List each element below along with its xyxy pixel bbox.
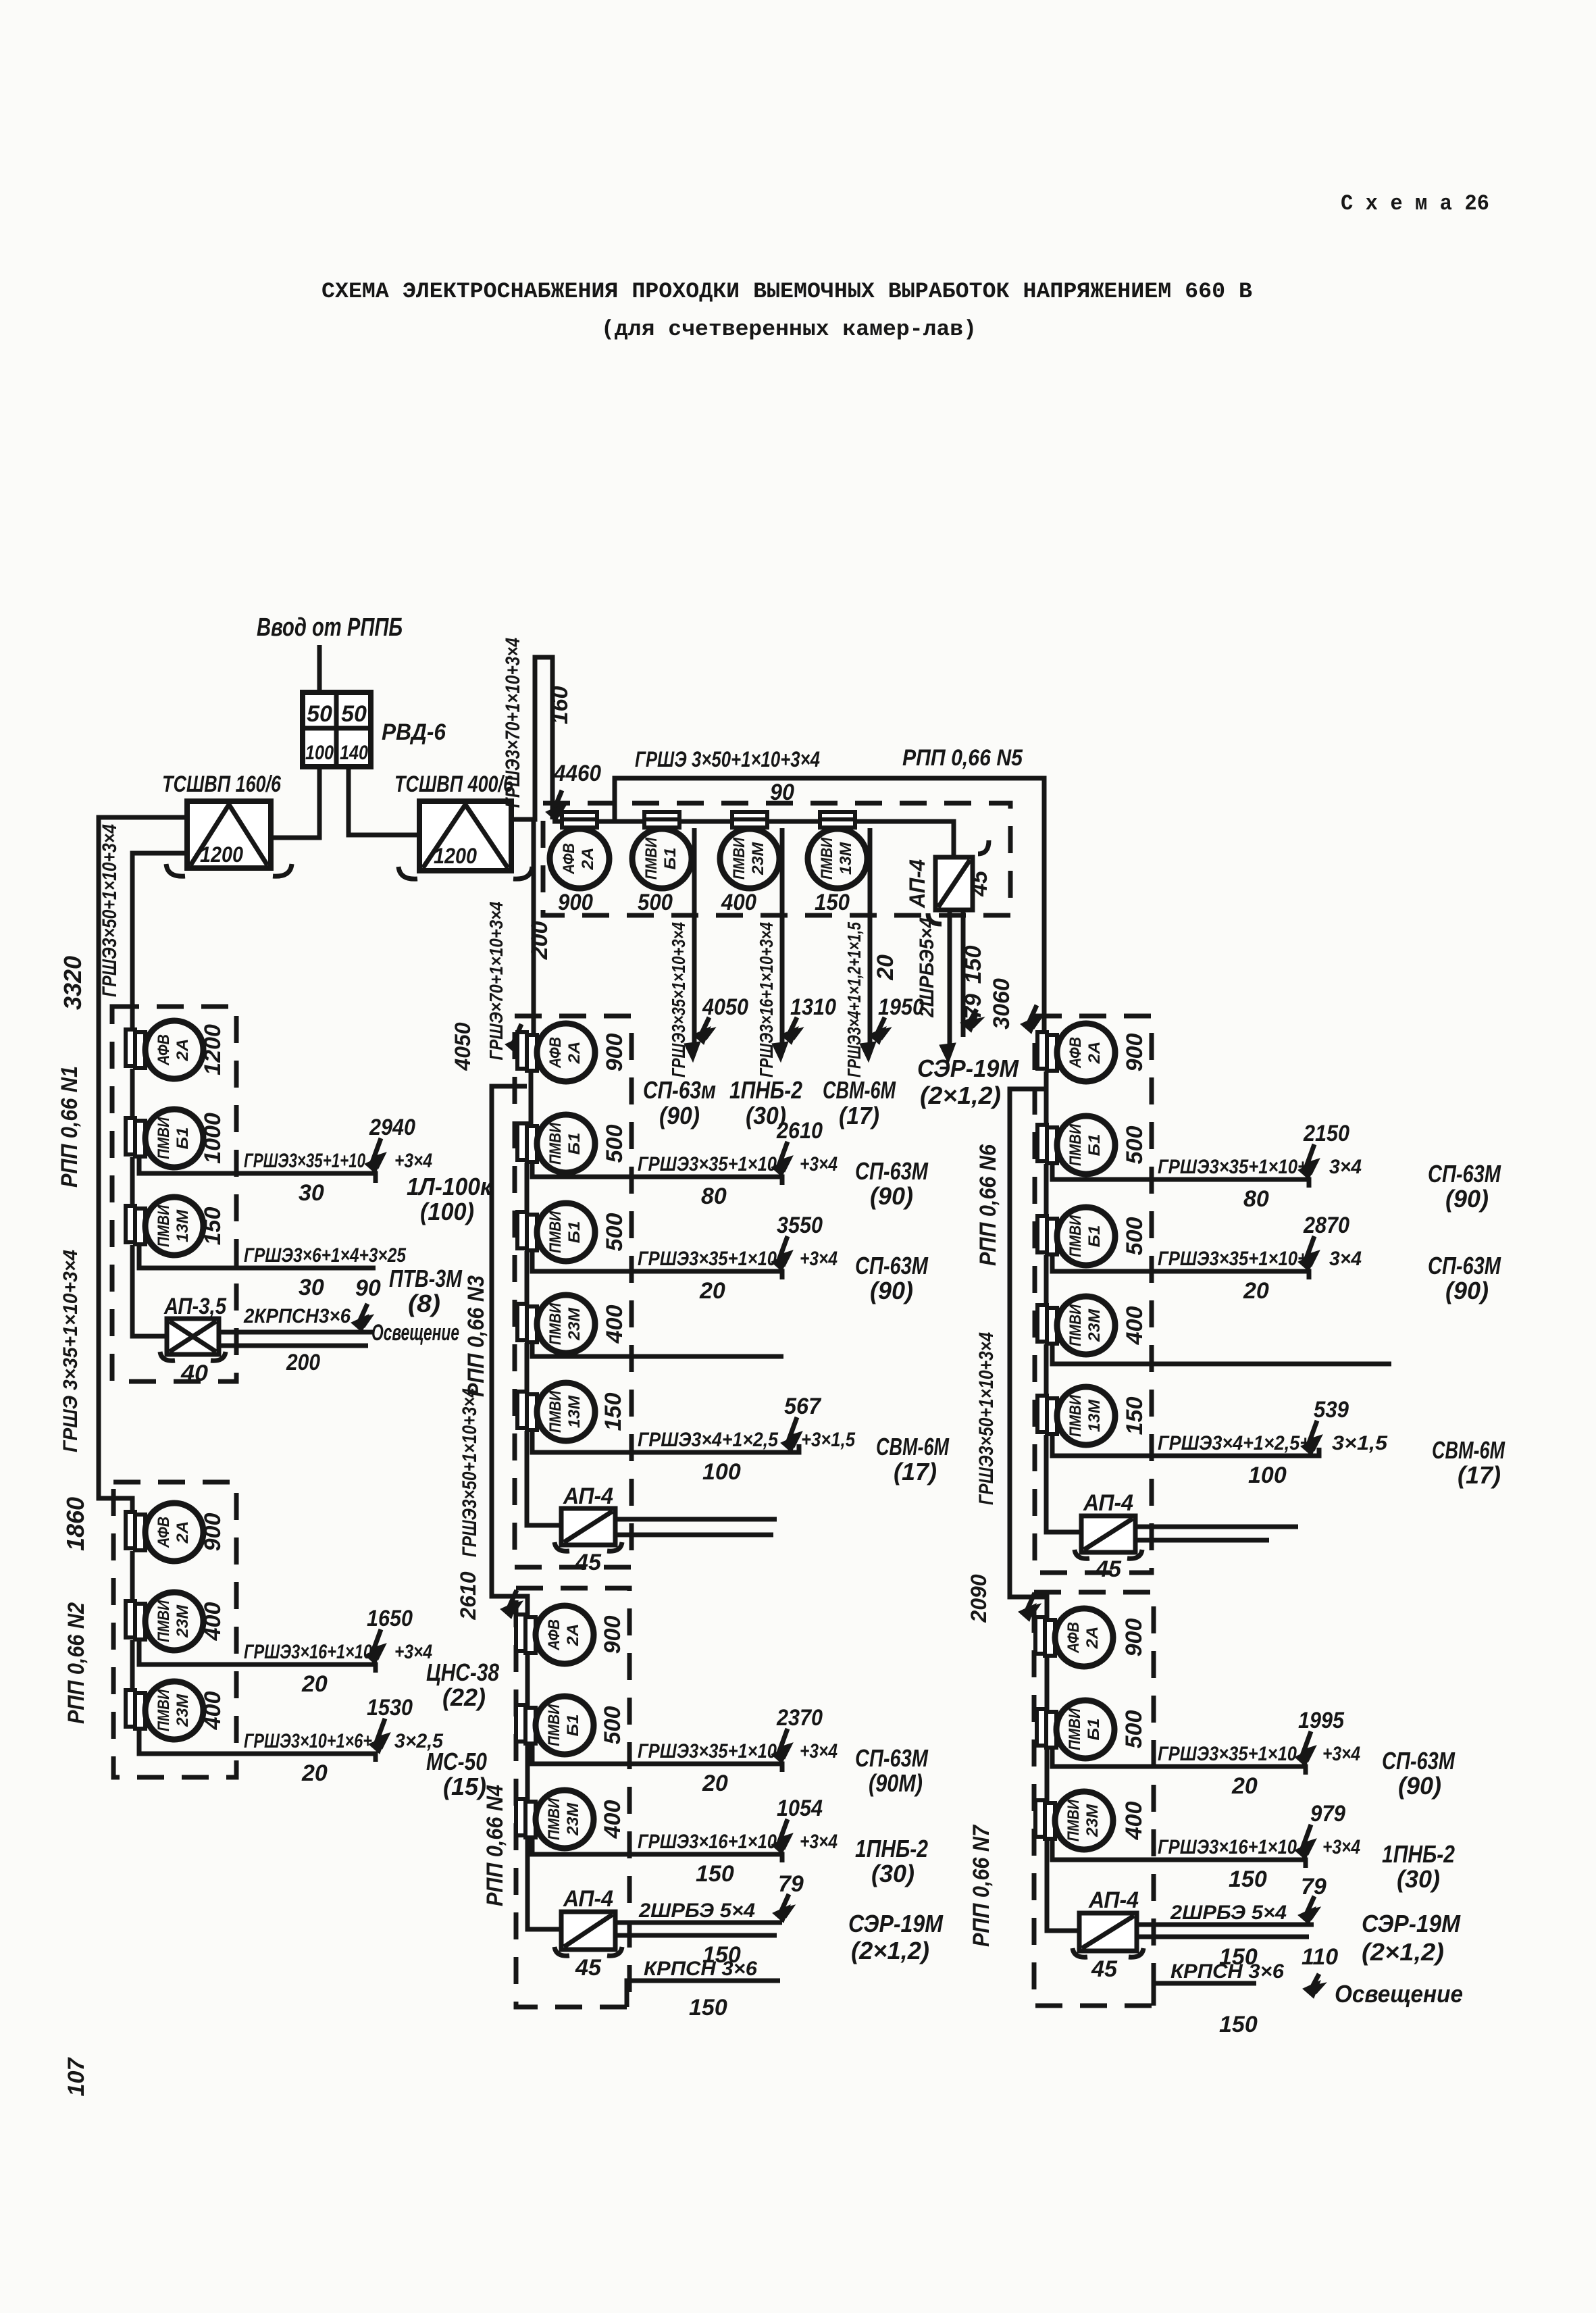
svg-text:1860: 1860 — [61, 1497, 89, 1551]
svg-text:500: 500 — [602, 1125, 627, 1163]
svg-text:45: 45 — [575, 1955, 602, 1981]
lightning fault marker — [877, 1017, 886, 1039]
svg-text:(15): (15) — [443, 1773, 486, 1800]
lightning fault marker at N4 input — [509, 1590, 518, 1613]
svg-text:2ШРБЭ5×4: 2ШРБЭ5×4 — [916, 917, 938, 1018]
svg-text:100: 100 — [702, 1459, 741, 1485]
svg-text:ПМВИ: ПМВИ — [545, 1798, 563, 1840]
apparatus АФВ 2А (N2) — body — [145, 1503, 203, 1561]
svg-text:23М: 23М — [1085, 1308, 1104, 1342]
svg-text:30: 30 — [299, 1275, 324, 1300]
lightning fault marker — [1304, 1731, 1312, 1761]
svg-text:АФВ: АФВ — [545, 1619, 563, 1651]
svg-text:РПП 0,66 N7: РПП 0,66 N7 — [969, 1824, 994, 1947]
svg-text:ГРШЭ3×35+1×10+: ГРШЭ3×35+1×10+ — [1158, 1248, 1308, 1270]
svg-text:+3×4: +3×4 — [800, 1740, 838, 1762]
wire feeder row 1 (N2) — [139, 1640, 376, 1673]
wire bus inside N4 — [525, 1654, 530, 1706]
svg-text:СП-63М: СП-63М — [855, 1744, 929, 1772]
starter АП-3,5 (N1) — [167, 1319, 219, 1354]
svg-text:ГРШЭ×70+1×10+3×4: ГРШЭ×70+1×10+3×4 — [486, 901, 507, 1060]
svg-text:+3×1,5: +3×1,5 — [801, 1429, 856, 1451]
svg-text:500: 500 — [1122, 1126, 1148, 1165]
svg-text:СВМ-6М: СВМ-6М — [1432, 1436, 1505, 1464]
switchgear box РПП 0,66 N2 — [113, 1482, 236, 1777]
svg-text:ПМВИ: ПМВИ — [545, 1704, 563, 1746]
wire ТСШВП 160/6 output to N2 (outer bus) — [99, 817, 187, 1513]
svg-text:Освещение: Освещение — [1335, 1980, 1463, 2008]
svg-text:13М: 13М — [565, 1395, 584, 1428]
wire bus to РПП 0,66 N5 — [552, 778, 1044, 1034]
svg-text:РВД-6: РВД-6 — [382, 719, 446, 745]
svg-text:23М: 23М — [749, 842, 767, 875]
svg-text:90: 90 — [355, 1275, 381, 1301]
svg-text:КРПСН 3×6: КРПСН 3×6 — [1170, 1960, 1284, 1983]
svg-text:+3×4: +3×4 — [800, 1831, 838, 1853]
lightning fault marker — [1307, 1144, 1316, 1174]
svg-text:ТСШВП 400/6: ТСШВП 400/6 — [394, 771, 514, 797]
wire bus inside РПП N5 — [557, 821, 954, 859]
svg-text:150: 150 — [1229, 1866, 1267, 1892]
starter АП-4 (N5) — [935, 857, 973, 910]
svg-text:150: 150 — [600, 1393, 626, 1431]
apparatus АФВ 2А (N2) — connector — [126, 1512, 135, 1548]
svg-text:АФВ: АФВ — [155, 1034, 173, 1066]
svg-text:ГРШЭ3×4+1×2,5: ГРШЭ3×4+1×2,5 — [638, 1429, 779, 1451]
lightning fault marker (N7 lighting) — [1312, 1974, 1320, 1993]
svg-text:С х е м а 26: С х е м а 26 — [1341, 191, 1489, 216]
svg-text:2370: 2370 — [776, 1705, 823, 1731]
svg-text:ГРШЭ3×50+1×10+3×4: ГРШЭ3×50+1×10+3×4 — [99, 824, 121, 997]
svg-text:500: 500 — [638, 890, 673, 915]
svg-text:ГРШЭ3×35+1+10: ГРШЭ3×35+1+10 — [244, 1150, 365, 1172]
starter АП-4 (N4) — [561, 1912, 615, 1950]
svg-text:ПМВИ: ПМВИ — [1066, 1708, 1084, 1750]
svg-text:ЦНС-38: ЦНС-38 — [426, 1658, 499, 1686]
apparatus АФВ 2А (N5) — connector — [562, 812, 597, 819]
wire trunk РПП N3 to РПП N4 — [492, 1086, 527, 1616]
wire feeder row 1 (N7) — [1052, 1748, 1306, 1775]
svg-text:900: 900 — [1121, 1619, 1147, 1657]
apparatus ПМВИ 23М (N4) — connector — [516, 1799, 525, 1835]
svg-text:КРПСН 3×6: КРПСН 3×6 — [644, 1958, 757, 1980]
apparatus АФВ 2А (N7) — body — [1055, 1608, 1113, 1667]
wire feeder row 2 (N6) — [1052, 1255, 1309, 1279]
lightning fault marker — [780, 1819, 789, 1849]
wire feeder row 3 (N3) — [532, 1343, 783, 1356]
svg-text:Освещение: Освещение — [371, 1320, 459, 1346]
wire КРПСН row (N7) — [1154, 1983, 1256, 2006]
svg-text:МС-50: МС-50 — [426, 1748, 487, 1775]
svg-text:ПМВИ: ПМВИ — [1066, 1304, 1085, 1346]
svg-text:(2×1,2): (2×1,2) — [851, 1937, 929, 1964]
wire riser ТСШВП 400/6 output — [511, 657, 552, 819]
apparatus ПМВИ Б1 (N4) — body — [536, 1696, 594, 1754]
svg-text:ПМВИ: ПМВИ — [546, 1302, 565, 1345]
svg-text:1000: 1000 — [200, 1113, 226, 1164]
svg-text:200: 200 — [286, 1350, 320, 1375]
svg-text:20: 20 — [1243, 1278, 1269, 1304]
wire feeder row 4 (N3) — [532, 1431, 799, 1452]
wire АП-3,5 output row — [219, 1330, 373, 1335]
svg-text:13М: 13М — [174, 1209, 192, 1242]
svg-text:4460: 4460 — [553, 761, 601, 786]
svg-text:ГРШЭ3×4+1×1,2+1×1,5: ГРШЭ3×4+1×1,2+1×1,5 — [844, 922, 865, 1077]
apparatus ПМВИ 13М (N5) — connector — [820, 812, 855, 819]
svg-text:СП-63м: СП-63м — [643, 1076, 716, 1104]
lightning fault marker — [374, 1629, 382, 1659]
svg-text:(2×1,2): (2×1,2) — [1362, 1938, 1444, 1966]
switchgear box РПП 0,66 N6 — [1035, 1016, 1152, 1573]
transformer ТСШВП 160/6 — [187, 801, 271, 868]
wire РВД-6 right output to ТСШВП 400/6 — [349, 767, 419, 835]
apparatus ПМВИ Б1 (N1) — body — [145, 1109, 203, 1167]
apparatus ПМВИ Б1 (N5) — connector — [644, 812, 679, 819]
svg-text:20: 20 — [702, 1771, 728, 1796]
lightning fault marker — [1310, 1421, 1318, 1450]
svg-text:1ПНБ-2: 1ПНБ-2 — [729, 1076, 802, 1104]
svg-text:ТСШВП 160/6: ТСШВП 160/6 — [162, 771, 282, 797]
svg-text:20: 20 — [301, 1760, 328, 1786]
svg-text:45: 45 — [575, 1550, 602, 1575]
svg-text:2А: 2А — [1083, 1627, 1102, 1650]
svg-text:20: 20 — [301, 1671, 328, 1697]
svg-text:400: 400 — [200, 1692, 226, 1731]
svg-text:79: 79 — [778, 1871, 804, 1897]
wire АП-4 N3 outputs — [615, 1517, 777, 1522]
svg-text:(2×1,2): (2×1,2) — [920, 1082, 1001, 1109]
svg-text:1995: 1995 — [1298, 1708, 1345, 1733]
switchgear box РПП 0,66 N4 — [516, 1588, 629, 2007]
svg-text:Б1: Б1 — [1085, 1134, 1104, 1156]
apparatus ПМВИ Б1 (N6-1) — connector — [1037, 1125, 1047, 1161]
apparatus ПМВИ 13М (N1) — body — [145, 1197, 203, 1255]
svg-text:(17): (17) — [1458, 1461, 1501, 1489]
svg-text:ГРШЭ3×16+1×10: ГРШЭ3×16+1×10 — [1158, 1836, 1297, 1858]
apparatus ПМВИ 23М (N7) — connector — [1035, 1800, 1045, 1837]
svg-text:30: 30 — [299, 1180, 324, 1206]
svg-text:400: 400 — [1122, 1306, 1148, 1346]
svg-text:АФВ: АФВ — [546, 1037, 565, 1069]
svg-text:23М: 23М — [174, 1604, 192, 1638]
svg-text:СВМ-6М: СВМ-6М — [876, 1433, 950, 1460]
svg-text:РПП 0,66 N1: РПП 0,66 N1 — [57, 1066, 82, 1188]
svg-text:100: 100 — [1248, 1463, 1287, 1488]
svg-text:(90): (90) — [1445, 1277, 1489, 1304]
wire АП-4 N4 output row СЭР — [615, 1921, 782, 1925]
svg-text:23М: 23М — [565, 1307, 584, 1341]
svg-text:400: 400 — [1121, 1802, 1147, 1841]
svg-text:+3×4: +3×4 — [1322, 1836, 1360, 1858]
svg-text:ГРШЭ3×35+1×10: ГРШЭ3×35+1×10 — [638, 1248, 777, 1270]
lightning fault marker — [790, 1017, 798, 1039]
svg-text:ПМВИ: ПМВИ — [1066, 1123, 1085, 1166]
svg-text:ГРШЭ3×35+1×10: ГРШЭ3×35+1×10 — [638, 1740, 777, 1762]
wire feeder drop 1310 — [780, 828, 785, 1046]
apparatus ПМВИ Б1 (N5) — body — [632, 829, 692, 888]
svg-text:(100): (100) — [420, 1198, 474, 1225]
svg-text:1200: 1200 — [200, 842, 243, 867]
switchgear box РПП 0,66 N5 — [543, 803, 1010, 915]
apparatus ПМВИ 23М (N2-1) — body — [145, 1592, 203, 1650]
svg-text:900: 900 — [200, 1513, 226, 1552]
svg-text:1530: 1530 — [367, 1695, 413, 1721]
svg-text:Ввод от РППБ: Ввод от РППБ — [257, 613, 403, 642]
svg-text:ПМВИ: ПМВИ — [155, 1600, 173, 1642]
svg-text:ГРШЭ3×16+1×10+3×4: ГРШЭ3×16+1×10+3×4 — [756, 922, 777, 1077]
svg-text:РПП 0,66 N5: РПП 0,66 N5 — [902, 745, 1023, 771]
svg-text:ПМВИ: ПМВИ — [155, 1204, 173, 1247]
apparatus ПМВИ Б1 (N6-1) — body — [1057, 1116, 1115, 1174]
svg-text:45: 45 — [1091, 1956, 1118, 1982]
svg-text:150: 150 — [689, 1995, 727, 2020]
svg-text:2А: 2А — [174, 1521, 192, 1544]
svg-text:СЭР-19М: СЭР-19М — [848, 1910, 944, 1937]
apparatus ПМВИ Б1 (N3-2) — body — [537, 1203, 595, 1261]
svg-text:СП-63М: СП-63М — [1382, 1747, 1456, 1775]
svg-text:СП-63М: СП-63М — [855, 1252, 929, 1279]
svg-text:АФВ: АФВ — [1066, 1037, 1085, 1069]
svg-text:2А: 2А — [174, 1039, 192, 1062]
svg-text:АФВ: АФВ — [560, 843, 578, 875]
svg-text:45: 45 — [1095, 1556, 1122, 1582]
wire input from РППБ — [317, 645, 322, 692]
apparatus ПМВИ 13М (N3) — body — [537, 1383, 595, 1441]
svg-text:АП-4: АП-4 — [563, 1483, 613, 1509]
wire feeder row 3 (N6) — [1052, 1344, 1391, 1364]
lightning fault marker — [790, 1417, 798, 1447]
svg-text:Б1: Б1 — [564, 1714, 582, 1737]
wire feeder row 1 (N1) — [139, 1156, 376, 1183]
apparatus ПМВИ 13М (N3) — connector — [517, 1392, 527, 1428]
svg-text:20: 20 — [1231, 1773, 1258, 1799]
svg-text:ПМВИ: ПМВИ — [818, 837, 836, 880]
svg-text:+3×4: +3×4 — [1322, 1743, 1360, 1765]
svg-text:150: 150 — [960, 946, 986, 984]
svg-text:ПМВИ: ПМВИ — [1066, 1394, 1085, 1437]
svg-text:ГРШЭ3×10+1×6+: ГРШЭ3×10+1×6+ — [244, 1730, 372, 1752]
svg-text:РПП 0,66 N2: РПП 0,66 N2 — [63, 1602, 89, 1724]
svg-text:ПМВИ: ПМВИ — [155, 1689, 173, 1731]
wire bus inside N3 — [529, 1071, 534, 1125]
svg-text:1054: 1054 — [777, 1796, 823, 1821]
apparatus ПМВИ 23М (N3) — body — [537, 1295, 595, 1353]
apparatus ПМВИ Б1 (N7) — body — [1056, 1700, 1114, 1758]
wire feeder drop 4050 — [692, 828, 697, 1046]
lightning fault marker at N6 input — [1029, 1005, 1038, 1028]
apparatus ПМВИ 23М (N4) — body — [536, 1790, 594, 1848]
svg-text:(90): (90) — [1445, 1185, 1489, 1213]
svg-text:900: 900 — [600, 1616, 625, 1654]
svg-text:ГРШЭ3×35×1×10+3×4: ГРШЭ3×35×1×10+3×4 — [668, 922, 689, 1077]
apparatus АФВ 2А (N1) — body — [145, 1021, 203, 1079]
wire АП-4 N6 outputs — [1135, 1525, 1298, 1529]
svg-text:+3×4: +3×4 — [800, 1153, 838, 1175]
apparatus ПМВИ Б1 (N7) — connector — [1037, 1709, 1046, 1746]
svg-text:900: 900 — [558, 890, 593, 915]
wire feeder row 4 (N6) — [1052, 1435, 1319, 1456]
svg-text:ГРШЭ3×70+1×10+3×4: ГРШЭ3×70+1×10+3×4 — [502, 638, 524, 808]
apparatus ПМВИ 13М (N1) — connector — [126, 1206, 135, 1242]
svg-text:3550: 3550 — [777, 1213, 823, 1238]
svg-text:АП-4: АП-4 — [563, 1886, 613, 1912]
svg-text:200: 200 — [527, 921, 552, 961]
svg-text:1Л-100к: 1Л-100к — [407, 1173, 493, 1200]
svg-text:ПМВИ: ПМВИ — [155, 1117, 173, 1159]
apparatus ПМВИ 13М (N6) — connector — [1037, 1396, 1047, 1432]
svg-text:3060: 3060 — [989, 978, 1014, 1030]
svg-text:539: 539 — [1314, 1397, 1349, 1423]
apparatus ПМВИ Б1 (N3-1) — connector — [517, 1123, 527, 1160]
wire bus inside N6 — [1044, 1071, 1049, 1126]
svg-text:20: 20 — [699, 1278, 725, 1304]
svg-text:(90): (90) — [659, 1102, 700, 1129]
svg-text:ПМВИ: ПМВИ — [642, 837, 661, 880]
svg-text:(17): (17) — [894, 1458, 937, 1485]
wire feeder row 2 (N7) — [1052, 1840, 1306, 1868]
svg-text:РПП 0,66 N3: РПП 0,66 N3 — [463, 1275, 489, 1397]
wire bus inside N2 — [130, 1551, 135, 1602]
svg-text:40: 40 — [180, 1361, 208, 1386]
wire feeder row 2 (N3) — [532, 1251, 782, 1279]
lightning fault marker — [1304, 1825, 1312, 1854]
svg-text:500: 500 — [1122, 1217, 1148, 1256]
svg-text:ПМВИ: ПМВИ — [546, 1390, 565, 1433]
svg-text:(8): (8) — [408, 1290, 440, 1317]
svg-text:ГРШЭ3×16+1×10: ГРШЭ3×16+1×10 — [244, 1641, 372, 1663]
svg-text:ПМВИ: ПМВИ — [730, 837, 748, 880]
svg-text:979: 979 — [1310, 1801, 1345, 1827]
lightning fault marker 4460 — [555, 790, 563, 816]
wire feeder row 1 (N3) — [532, 1163, 782, 1185]
svg-text:150: 150 — [815, 890, 850, 915]
svg-text:23М: 23М — [174, 1694, 192, 1727]
svg-text:АП-4: АП-4 — [1088, 1887, 1139, 1913]
svg-text:13М: 13М — [837, 842, 855, 875]
svg-text:Б1: Б1 — [661, 848, 679, 870]
svg-text:3320: 3320 — [59, 956, 86, 1010]
svg-text:+3×4: +3×4 — [394, 1150, 432, 1172]
apparatus ПМВИ 13М (N6) — body — [1057, 1387, 1115, 1445]
lightning fault marker — [374, 1138, 382, 1168]
svg-text:2150: 2150 — [1303, 1121, 1349, 1146]
svg-text:1310: 1310 — [790, 994, 836, 1020]
svg-text:3×4: 3×4 — [1329, 1156, 1362, 1178]
wire feeder row 2 (N1) — [139, 1244, 376, 1268]
svg-text:1ПНБ-2: 1ПНБ-2 — [1382, 1840, 1455, 1868]
protection device РВД-6 — [303, 692, 371, 767]
svg-text:Б1: Б1 — [565, 1133, 584, 1155]
svg-text:400: 400 — [200, 1602, 226, 1642]
svg-text:ГРШЭ 3×50+1×10+3×4: ГРШЭ 3×50+1×10+3×4 — [635, 747, 820, 771]
svg-text:ГРШЭ3×35+1×10: ГРШЭ3×35+1×10 — [638, 1153, 777, 1175]
svg-text:(90М): (90М) — [869, 1769, 923, 1797]
wire bus inside N1 — [130, 1069, 135, 1119]
lightning fault marker (N4 СЭР) — [781, 1894, 790, 1917]
apparatus ПМВИ 23М (N7) — body — [1055, 1791, 1113, 1850]
starter АП-4 (N7) — [1079, 1913, 1137, 1951]
svg-text:ГРШЭ3×50+1×10+3×4: ГРШЭ3×50+1×10+3×4 — [975, 1332, 998, 1505]
apparatus ПМВИ Б1 (N6-2) — body — [1057, 1207, 1115, 1265]
lightning fault marker at N7 input — [1027, 1593, 1036, 1616]
svg-text:567: 567 — [784, 1394, 822, 1419]
svg-text:500: 500 — [1121, 1710, 1147, 1749]
apparatus АФВ 2А (N1) — connector — [126, 1030, 135, 1066]
svg-text:ГРШЭ3×35+1×10+: ГРШЭ3×35+1×10+ — [1158, 1156, 1308, 1178]
svg-text:Б1: Б1 — [174, 1127, 192, 1150]
svg-text:150: 150 — [1219, 2012, 1258, 2037]
svg-text:50: 50 — [307, 701, 332, 727]
svg-text:1200: 1200 — [200, 1024, 226, 1075]
svg-text:23М: 23М — [1083, 1804, 1102, 1837]
svg-text:400: 400 — [600, 1800, 625, 1839]
lightning fault marker — [378, 1719, 386, 1748]
svg-text:23М: 23М — [564, 1802, 582, 1836]
lightning fault marker (N5 АП) — [969, 1009, 978, 1027]
switchgear box РПП 0,66 N1 — [112, 1007, 236, 1381]
apparatus АФВ 2А (N3) — connector — [517, 1032, 527, 1069]
svg-text:АП-3,5: АП-3,5 — [163, 1294, 227, 1319]
svg-text:45: 45 — [967, 870, 992, 897]
svg-text:АП-4: АП-4 — [1083, 1490, 1133, 1516]
svg-text:150: 150 — [1122, 1397, 1148, 1435]
svg-text:ПТВ-3М: ПТВ-3М — [389, 1265, 463, 1292]
apparatus ПМВИ 23М (N2-2) — connector — [126, 1690, 135, 1727]
lightning fault marker — [1307, 1236, 1316, 1266]
apparatus АФВ 2А (N5) — body — [550, 829, 609, 888]
apparatus АФВ 2А (N4) — connector — [516, 1615, 525, 1651]
apparatus ПМВИ Б1 (N4) — connector — [516, 1705, 525, 1742]
apparatus ПМВИ 23М (N2-2) — body — [145, 1681, 203, 1739]
svg-text:(90): (90) — [870, 1182, 913, 1210]
svg-text:140: 140 — [340, 742, 368, 764]
apparatus ПМВИ 23М (N2-1) — connector — [126, 1601, 135, 1637]
svg-text:20: 20 — [873, 955, 898, 981]
svg-text:500: 500 — [602, 1213, 627, 1252]
svg-text:СЭР-19М: СЭР-19М — [1362, 1910, 1461, 1937]
apparatus ПМВИ 23М (N6) — connector — [1037, 1305, 1047, 1342]
apparatus ПМВИ 23М (N5) — connector — [732, 812, 767, 819]
svg-text:150: 150 — [696, 1861, 734, 1887]
svg-text:ПМВИ: ПМВИ — [546, 1122, 565, 1165]
wire bus inside N7 — [1045, 1656, 1050, 1710]
apparatus АФВ 2А (N6) — connector — [1037, 1032, 1047, 1069]
wire feeder row 1 (N6) — [1052, 1164, 1309, 1188]
svg-text:Б1: Б1 — [1085, 1719, 1103, 1741]
svg-text:АФВ: АФВ — [155, 1517, 173, 1548]
lightning fault marker — [780, 1729, 789, 1758]
svg-text:2ШРБЭ 5×4: 2ШРБЭ 5×4 — [638, 1900, 755, 1922]
wire ТСШВП 160/6 output to N1 — [132, 853, 187, 1031]
wire feeder row 2 (N4) — [532, 1838, 782, 1862]
apparatus АФВ 2А (N6) — body — [1057, 1023, 1115, 1082]
svg-text:79: 79 — [1301, 1874, 1327, 1900]
svg-text:400: 400 — [602, 1305, 627, 1344]
transformer ТСШВП 400/6 — [419, 801, 511, 871]
svg-text:Б1: Б1 — [565, 1221, 584, 1244]
lightning fault marker at N3 input — [514, 1024, 523, 1048]
lightning fault marker (N1 lighting) — [360, 1304, 369, 1327]
svg-text:3×1,5: 3×1,5 — [1332, 1432, 1388, 1454]
svg-text:160: 160 — [547, 686, 573, 725]
apparatus ПМВИ 23М (N5) — body — [720, 829, 779, 888]
svg-text:+3×4: +3×4 — [800, 1248, 838, 1270]
lightning fault marker — [780, 1236, 789, 1266]
wire РВД-6 left output to ТСШВП 160/6 — [271, 767, 319, 838]
svg-text:ГРШЭ3×50+1×10+3×4: ГРШЭ3×50+1×10+3×4 — [459, 1388, 481, 1557]
svg-text:80: 80 — [701, 1184, 727, 1209]
lightning fault marker — [780, 1142, 789, 1171]
